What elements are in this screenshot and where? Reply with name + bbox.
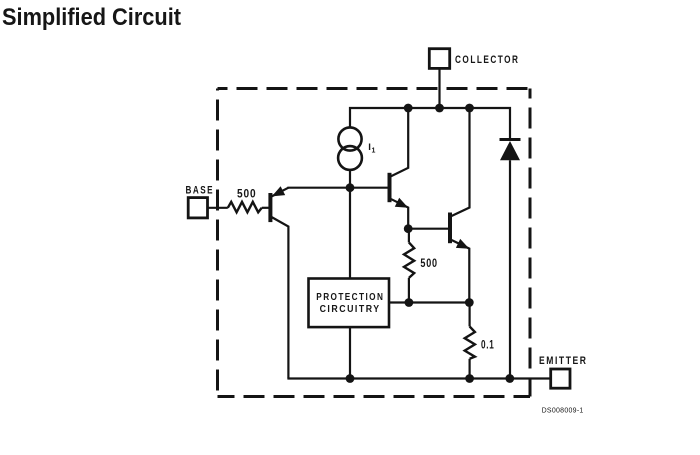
wire node A to protection box (349, 188, 351, 279)
junction dot Q2 emitter node (465, 298, 474, 307)
protection circuitry box (309, 279, 390, 328)
svg-text:500: 500 (420, 258, 438, 270)
current source I1 (338, 127, 362, 170)
junction dot top rail left (404, 104, 413, 113)
svg-text:Simplified Circuit: Simplified Circuit (2, 4, 181, 31)
svg-text:BASE: BASE (186, 184, 215, 196)
svg-text:500: 500 (237, 189, 257, 201)
transistor Q-PNP base bar (268, 193, 272, 222)
diode D1 triangle (500, 141, 520, 160)
transistor Q-PNP collector diagonal (272, 217, 289, 379)
transistor Q1 base bar (388, 173, 392, 202)
wire base lead (208, 207, 228, 209)
transistor Q1 emitter with arrow (391, 199, 409, 229)
wire 0.1 resistor top lead (469, 303, 471, 327)
COLLECTOR terminal square (429, 49, 449, 69)
svg-text:DS008009-1: DS008009-1 (542, 406, 584, 415)
wire node A horizontal (PNP emitter to Q1 base) (287, 187, 387, 189)
wire top rail with corners to current source and diode (350, 108, 510, 138)
wire protection box right to emitter resistor node (389, 301, 469, 303)
transistor Q1 collector (391, 108, 409, 177)
wire bottom emitter rail (287, 377, 550, 379)
junction dot top rail center (435, 104, 444, 113)
svg-text:1: 1 (372, 148, 376, 155)
transistor Q2 base bar (448, 213, 452, 244)
wire Q1 emitter node to Q2 base (408, 228, 448, 230)
wire resistor to PNP base (262, 207, 269, 209)
wire 500 resistor bottom lead (408, 278, 410, 303)
transistor Q2 collector (451, 108, 470, 216)
IC boundary dashed box (218, 89, 531, 397)
wire Q1 emitter node to 500 resistor (408, 229, 410, 243)
junction dot 0.1 bottom (465, 374, 474, 383)
junction dot diode bottom (505, 374, 514, 383)
resistor 500 (base, horizontal) (228, 202, 262, 212)
junction node A dot (346, 183, 355, 192)
wire collector lead (438, 68, 440, 108)
diode D1 cathode bar (500, 138, 521, 141)
svg-text:COLLECTOR: COLLECTOR (455, 54, 520, 66)
wire diode bottom lead (509, 160, 511, 378)
junction dot below 500 resistor (405, 298, 414, 307)
junction dot Q1 emitter node (404, 224, 413, 233)
wire 0.1 resistor bottom lead (469, 359, 471, 379)
EMITTER terminal square (551, 369, 570, 388)
wire protection box bottom lead (349, 327, 351, 378)
svg-text:EMITTER: EMITTER (539, 355, 588, 367)
junction dot top rail right (465, 104, 474, 113)
svg-text:0.1: 0.1 (481, 339, 495, 351)
transistor Q-PNP emitter (arrow into bar) (272, 188, 289, 197)
resistor 500 (vertical) (404, 242, 414, 278)
svg-text:PROTECTION: PROTECTION (316, 291, 384, 303)
svg-text:CIRCUITRY: CIRCUITRY (320, 303, 381, 315)
BASE terminal square (188, 198, 207, 218)
transistor Q2 emitter with arrow (451, 240, 469, 303)
wire current source bottom lead (349, 170, 351, 188)
junction dot protection bottom (346, 374, 355, 383)
resistor 0.1 (465, 326, 475, 358)
